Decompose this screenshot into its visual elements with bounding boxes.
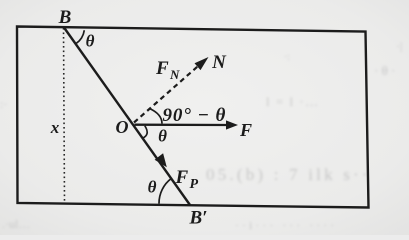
svg-text:F: F — [239, 120, 252, 140]
svg-text:F: F — [155, 58, 169, 79]
angle arc at B — [76, 30, 84, 43]
svg-text::·: :· — [0, 97, 7, 111]
faint bleed-through text (page verso) — [0, 39, 402, 232]
svg-text:θ: θ — [148, 178, 157, 197]
svg-text:··i··· ··· ····: ··i··· ··· ···· — [235, 218, 337, 232]
rod B-B' — [64, 28, 190, 206]
angle arc at B' — [159, 178, 172, 203]
svg-text:N: N — [169, 67, 180, 82]
svg-text:x: x — [50, 118, 60, 137]
svg-text:P: P — [190, 177, 199, 192]
svg-text:N: N — [211, 52, 227, 73]
svg-text:· θ ·: · θ · — [374, 63, 395, 78]
force F arrow (horizontal) — [135, 124, 229, 127]
F_P arrowhead on rod — [155, 153, 167, 167]
svg-text:·:: ·: — [284, 52, 290, 63]
arc theta at O — [143, 126, 148, 138]
svg-text:F: F — [175, 167, 189, 188]
dotted vertical line x — [64, 28, 65, 203]
svg-text:θ: θ — [86, 32, 95, 51]
svg-text:O: O — [116, 117, 129, 137]
svg-text:90° − θ: 90° − θ — [163, 105, 227, 126]
dashed force F_N line to N — [134, 64, 201, 123]
svg-text:l = l ·…: l = l ·… — [266, 94, 320, 109]
svg-text:·|: ·| — [396, 39, 402, 53]
arc 90-theta at O — [150, 109, 162, 124]
svg-text:05.(b) : 7 ilk s··: 05.(b) : 7 ilk s·· — [206, 165, 371, 184]
svg-text:B: B — [58, 7, 72, 28]
svg-text:B′: B′ — [188, 208, 207, 229]
rectangle border (slightly skewed, scan) — [17, 27, 369, 208]
svg-text:.·ul…: .·ul… — [2, 217, 30, 231]
svg-text:θ: θ — [158, 127, 167, 146]
